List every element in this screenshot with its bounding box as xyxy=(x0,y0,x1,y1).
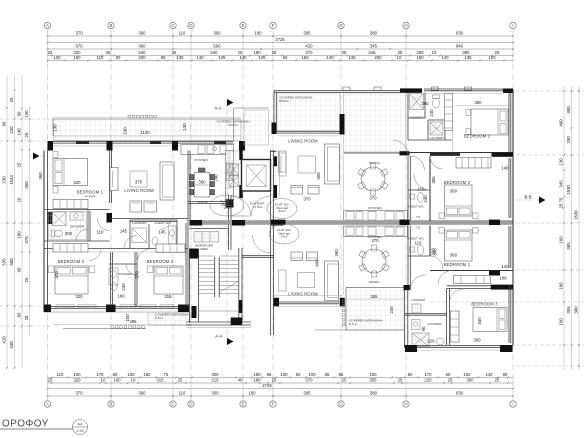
upper wardrobe column xyxy=(445,94,453,131)
lower bedroom1 south wall xyxy=(430,270,513,272)
svg-text:380: 380 xyxy=(574,306,579,314)
svg-text:F: F xyxy=(272,402,275,407)
svg-text:220: 220 xyxy=(424,378,432,383)
svg-text:420: 420 xyxy=(2,336,7,344)
hall column B xyxy=(107,213,113,223)
east facade wall xyxy=(512,89,514,346)
svg-text:135: 135 xyxy=(258,55,266,60)
svg-text:25: 25 xyxy=(272,50,277,55)
bedroom 1 bed xyxy=(53,159,88,186)
upper bedroom 1 bed xyxy=(471,109,508,135)
svg-text:65: 65 xyxy=(17,312,22,317)
upper bedroom 2 bed xyxy=(445,185,473,216)
svg-text:1530: 1530 xyxy=(574,210,579,220)
bedroom3 east wall xyxy=(185,223,187,306)
svg-text:130: 130 xyxy=(182,123,187,131)
living room top window xyxy=(277,130,340,132)
svg-text:90: 90 xyxy=(408,372,413,377)
south columns xyxy=(44,305,51,313)
bedroom3 bottom wall xyxy=(417,345,500,347)
svg-text:370: 370 xyxy=(75,44,83,49)
svg-text:500: 500 xyxy=(9,258,14,266)
svg-text:25: 25 xyxy=(106,50,111,55)
svg-text:80: 80 xyxy=(116,55,121,60)
balcony dimension 1140 xyxy=(53,135,241,137)
svg-text:B: B xyxy=(109,402,112,407)
dining chairs xyxy=(190,175,194,180)
lower verandah xyxy=(346,288,404,331)
svg-text:25: 25 xyxy=(17,162,22,167)
bedroom 2 door arc xyxy=(89,249,101,261)
upper dining table xyxy=(361,167,385,191)
svg-text:400: 400 xyxy=(559,119,564,127)
balcony bottom verandah xyxy=(53,324,190,326)
ensuite shower tray xyxy=(52,212,66,226)
svg-text:A-A: A-A xyxy=(215,334,222,339)
column A1 xyxy=(48,141,54,151)
svg-text:160: 160 xyxy=(143,372,151,377)
svg-text:100: 100 xyxy=(488,55,496,60)
upper living coffee table xyxy=(298,156,316,173)
svg-text:BEDROOM 1: BEDROOM 1 xyxy=(464,134,491,139)
svg-text:400: 400 xyxy=(566,106,571,114)
svg-text:150: 150 xyxy=(416,55,424,60)
svg-text:630: 630 xyxy=(456,391,464,396)
lower living armchairs xyxy=(291,252,303,261)
dining east wall xyxy=(187,151,189,224)
svg-text:150: 150 xyxy=(463,372,471,377)
title underline xyxy=(0,428,73,430)
left apartment south wall windows xyxy=(51,306,186,308)
upper verandah parapet top xyxy=(274,90,408,92)
column B1 xyxy=(107,141,113,151)
lower verandah wall col xyxy=(404,285,410,290)
svg-text:350: 350 xyxy=(466,378,474,383)
lower living coffee table xyxy=(298,273,315,288)
north wall stubs xyxy=(76,141,89,144)
svg-text:GUEST WC: GUEST WC xyxy=(407,205,424,209)
svg-text:345: 345 xyxy=(559,180,564,188)
south window sills xyxy=(56,305,74,308)
svg-text:145: 145 xyxy=(120,229,128,234)
svg-text:85: 85 xyxy=(339,372,344,377)
svg-text:300: 300 xyxy=(211,372,219,377)
svg-text:140: 140 xyxy=(326,55,334,60)
svg-text:B-B: B-B xyxy=(524,195,531,200)
scale bubble A4 1:50 xyxy=(73,420,88,435)
svg-text:110: 110 xyxy=(415,241,422,246)
guest wc toilet xyxy=(152,237,158,245)
upper bedroom 1 dim 380 xyxy=(455,105,509,107)
svg-text:KITCHEN: KITCHEN xyxy=(194,158,208,162)
svg-text:DINING: DINING xyxy=(369,280,380,284)
svg-text:80: 80 xyxy=(161,55,166,60)
svg-text:I: I xyxy=(512,23,513,28)
svg-text:395: 395 xyxy=(303,31,311,36)
svg-text:LIVING ROOM: LIVING ROOM xyxy=(288,292,318,297)
party wall band left xyxy=(190,220,284,225)
svg-text:180: 180 xyxy=(254,31,262,36)
ensuite floor hatch xyxy=(49,212,87,240)
svg-text:2725: 2725 xyxy=(262,383,272,388)
upper verandah hatch outer xyxy=(277,93,340,131)
right vertical dimension lines xyxy=(559,86,580,370)
svg-text:180: 180 xyxy=(17,231,22,239)
svg-text:100: 100 xyxy=(125,314,130,322)
lower kitchen counter xyxy=(344,226,408,237)
kitchen tall cabinet xyxy=(226,151,234,200)
svg-text:25: 25 xyxy=(342,378,347,383)
svg-text:60: 60 xyxy=(283,55,288,60)
bedroom1/living wall xyxy=(109,151,111,204)
bedroom 2 bed xyxy=(55,266,88,294)
upper bedroom 2 wardrobe xyxy=(456,158,491,168)
svg-text:135: 135 xyxy=(176,55,184,60)
svg-text:SHOWER: SHOWER xyxy=(70,225,85,229)
svg-text:90: 90 xyxy=(2,121,7,126)
upper corridor door arcs xyxy=(410,156,424,170)
bedroom1 south wall xyxy=(408,152,513,154)
bottom dimension lines xyxy=(46,372,514,400)
upper kitchen counter xyxy=(344,211,408,222)
svg-text:140: 140 xyxy=(485,372,493,377)
wardrobe cabinet xyxy=(194,232,219,243)
svg-text:180: 180 xyxy=(559,282,564,290)
hall column xyxy=(226,200,234,208)
svg-text:345: 345 xyxy=(370,44,378,49)
shower toilet xyxy=(111,283,117,291)
section marker B-B left xyxy=(30,155,44,157)
svg-text:A: A xyxy=(46,402,49,407)
svg-text:1530: 1530 xyxy=(566,185,571,195)
column grid bubbles bottom xyxy=(44,401,516,407)
flat 203 label xyxy=(269,224,299,244)
svg-text:I: I xyxy=(512,402,513,407)
svg-text:60: 60 xyxy=(113,372,118,377)
left apartment boundary wall upper right xyxy=(271,151,277,153)
svg-text:360: 360 xyxy=(24,181,29,189)
svg-text:25 75: 25 75 xyxy=(559,197,564,208)
svg-text:370: 370 xyxy=(54,271,59,279)
bedroom 3 wardrobe xyxy=(156,244,185,253)
svg-text:130: 130 xyxy=(559,158,564,166)
wardrobe corridor wall xyxy=(44,251,188,253)
upper living armchairs xyxy=(291,186,303,195)
laundry lower walls xyxy=(404,287,406,348)
svg-text:25: 25 xyxy=(342,50,347,55)
column grid bubbles top xyxy=(44,22,516,28)
svg-text:85: 85 xyxy=(267,372,272,377)
living room sofa xyxy=(160,162,174,200)
svg-text:F: F xyxy=(272,23,275,28)
stair landing edge xyxy=(199,310,239,312)
svg-text:430: 430 xyxy=(9,341,14,349)
svg-text:160: 160 xyxy=(559,236,564,244)
stair bottom wall xyxy=(186,321,251,323)
stair stringer xyxy=(214,257,216,298)
svg-text:50: 50 xyxy=(296,372,301,377)
ensuite walls xyxy=(44,209,110,211)
svg-text:A4: A4 xyxy=(78,422,84,427)
svg-text:220: 220 xyxy=(427,339,435,344)
svg-text:100: 100 xyxy=(499,276,507,281)
svg-text:360: 360 xyxy=(138,44,146,49)
svg-text:SHOWER: SHOWER xyxy=(410,115,425,119)
wc toilet upper xyxy=(433,98,440,108)
svg-text:A: A xyxy=(46,23,49,28)
svg-text:BEDROOM 2: BEDROOM 2 xyxy=(58,259,85,264)
svg-text:380: 380 xyxy=(370,31,378,36)
parapet pilaster caps xyxy=(343,87,350,90)
shower block walls xyxy=(407,93,409,141)
svg-text:200: 200 xyxy=(421,101,429,106)
living room tv unit xyxy=(110,168,118,191)
flat 202 label xyxy=(267,199,297,219)
verandah south edge wall xyxy=(344,152,409,154)
svg-text:BEDROOM 3: BEDROOM 3 xyxy=(147,259,174,264)
shower door arc xyxy=(126,264,137,275)
svg-text:140: 140 xyxy=(441,55,449,60)
left wall column xyxy=(48,212,53,224)
kitchen-hall wall xyxy=(188,201,234,203)
svg-text:G: G xyxy=(339,23,343,28)
svg-text:355: 355 xyxy=(566,306,571,314)
svg-text:355: 355 xyxy=(369,378,377,383)
svg-text:130: 130 xyxy=(53,124,58,132)
svg-text:LAUNDRY: LAUNDRY xyxy=(411,298,426,302)
living room coffee table xyxy=(130,171,147,187)
svg-text:10: 10 xyxy=(397,55,402,60)
svg-text:200: 200 xyxy=(374,55,382,60)
svg-text:365: 365 xyxy=(431,176,436,184)
left vertical dimension lines xyxy=(2,75,31,369)
svg-text:1:50: 1:50 xyxy=(76,429,83,433)
lower bedroom 1 bed xyxy=(445,230,473,261)
svg-text:240: 240 xyxy=(214,174,219,182)
ensuite toilet xyxy=(52,230,55,237)
kitchen west wall lower xyxy=(343,237,345,295)
verandah left column xyxy=(272,123,277,135)
svg-text:ΟΡΟΦΟΥ: ΟΡΟΦΟΥ xyxy=(2,419,49,430)
svg-text:175: 175 xyxy=(96,372,104,377)
lower living sofa xyxy=(325,261,339,301)
upper verandah hatch inner xyxy=(344,93,407,152)
svg-text:420: 420 xyxy=(305,44,313,49)
meter closet boxes xyxy=(229,164,239,175)
stair treads xyxy=(199,255,215,257)
svg-text:25: 25 xyxy=(24,132,29,137)
svg-text:240: 240 xyxy=(121,283,126,291)
svg-text:380: 380 xyxy=(370,391,378,396)
svg-text:630: 630 xyxy=(456,31,464,36)
svg-text:160: 160 xyxy=(117,294,125,299)
svg-text:590: 590 xyxy=(213,44,221,49)
svg-text:240: 240 xyxy=(429,109,434,117)
right wall lower windows xyxy=(508,226,510,268)
corridor door arcs xyxy=(231,196,251,216)
svg-text:340: 340 xyxy=(210,50,218,55)
column C1 xyxy=(172,141,178,151)
svg-text:300: 300 xyxy=(211,391,219,396)
svg-text:KITCHEN: KITCHEN xyxy=(368,206,382,210)
shower lower toilet xyxy=(436,338,444,344)
svg-text:10: 10 xyxy=(432,50,437,55)
lower dining table xyxy=(362,249,386,273)
svg-text:150: 150 xyxy=(301,55,309,60)
svg-text:A-A: A-A xyxy=(214,106,221,111)
svg-text:370: 370 xyxy=(303,197,311,202)
svg-text:25: 25 xyxy=(24,277,29,282)
svg-text:140: 140 xyxy=(501,166,509,171)
svg-text:180: 180 xyxy=(253,378,261,383)
lower living south window xyxy=(277,301,340,303)
section line A-A vertical xyxy=(226,100,228,345)
svg-text:25: 25 xyxy=(9,97,14,102)
svg-text:170: 170 xyxy=(424,372,432,377)
svg-text:315: 315 xyxy=(156,378,164,383)
corridor walls xyxy=(228,195,230,250)
svg-text:90: 90 xyxy=(421,326,426,331)
svg-text:10: 10 xyxy=(131,378,136,383)
svg-text:215: 215 xyxy=(211,378,219,383)
svg-text:E: E xyxy=(241,23,244,28)
living wall column xyxy=(340,114,345,135)
svg-text:145: 145 xyxy=(158,230,166,235)
lower bedroom 3 bed xyxy=(473,308,507,332)
svg-text:82m²: 82m² xyxy=(278,209,285,213)
svg-text:140: 140 xyxy=(239,55,247,60)
kitchen counter xyxy=(181,145,234,155)
svg-text:640: 640 xyxy=(456,44,464,49)
svg-text:25: 25 xyxy=(398,378,403,383)
verandah top column xyxy=(400,88,422,92)
lower boundary wall xyxy=(274,295,344,297)
svg-text:60: 60 xyxy=(17,267,22,272)
svg-text:375: 375 xyxy=(135,180,143,185)
svg-text:345: 345 xyxy=(477,317,482,325)
party wall right band xyxy=(271,220,514,225)
right wall bedroom2 windows xyxy=(508,158,510,218)
svg-text:240: 240 xyxy=(423,195,428,203)
svg-text:110: 110 xyxy=(97,55,104,60)
svg-text:160: 160 xyxy=(113,378,121,383)
svg-text:360: 360 xyxy=(450,189,458,194)
svg-text:AREA: AREA xyxy=(200,247,209,251)
svg-text:90: 90 xyxy=(503,372,508,377)
elevator door pocket xyxy=(279,153,286,176)
svg-text:1043: 1043 xyxy=(9,175,14,185)
balcony floor hatch xyxy=(54,120,242,141)
shower lower tray xyxy=(412,333,429,347)
svg-text:370: 370 xyxy=(24,236,29,244)
svg-text:85: 85 xyxy=(325,372,330,377)
svg-text:G: G xyxy=(339,402,343,407)
svg-text:100: 100 xyxy=(53,55,61,60)
wardrobe area wall xyxy=(190,228,229,230)
svg-text:230: 230 xyxy=(2,176,7,184)
svg-text:65.0m²: 65.0m² xyxy=(279,99,289,103)
stairwell walls xyxy=(198,249,200,323)
svg-text:140: 140 xyxy=(196,55,204,60)
svg-text:360: 360 xyxy=(198,180,206,185)
svg-text:360: 360 xyxy=(450,253,458,258)
svg-text:345: 345 xyxy=(433,248,438,256)
elevator shaft wall blacks xyxy=(239,145,242,160)
svg-text:LIVING ROOM: LIVING ROOM xyxy=(124,188,154,193)
svg-text:7.8: 7.8 xyxy=(416,215,421,219)
svg-text:100: 100 xyxy=(127,372,135,377)
bedroom1 west wall xyxy=(452,93,454,153)
corridor south wall xyxy=(242,255,274,257)
svg-text:H: H xyxy=(404,402,407,407)
svg-text:E: E xyxy=(241,402,244,407)
upper living tv unit xyxy=(279,151,287,172)
column D1 xyxy=(239,141,245,151)
left apt east verandah xyxy=(233,108,235,141)
dining table left apt xyxy=(195,173,210,198)
entrance hatch strip above elevator xyxy=(229,151,241,164)
svg-text:LIVING ROOM: LIVING ROOM xyxy=(288,139,318,144)
svg-text:130: 130 xyxy=(24,110,29,118)
bedroom3 north wall column xyxy=(491,285,513,290)
svg-text:150: 150 xyxy=(566,136,571,144)
svg-text:150: 150 xyxy=(559,318,564,326)
svg-text:20: 20 xyxy=(24,315,29,320)
svg-text:535: 535 xyxy=(2,258,7,266)
bedroom3 door arc xyxy=(450,289,464,303)
bedroom 3 door arc xyxy=(137,249,152,264)
hall door arcs xyxy=(98,219,110,231)
svg-text:395: 395 xyxy=(303,391,311,396)
left exterior wall xyxy=(43,151,45,313)
svg-text:75m²: 75m² xyxy=(280,235,287,239)
svg-text:LAUNDRY: LAUNDRY xyxy=(430,136,445,140)
svg-text:100: 100 xyxy=(308,372,316,377)
svg-text:360: 360 xyxy=(138,31,146,36)
svg-text:230: 230 xyxy=(123,127,128,135)
svg-text:10: 10 xyxy=(101,378,106,383)
svg-text:490: 490 xyxy=(316,172,321,180)
bedroom3 north wall xyxy=(447,285,514,287)
svg-text:360: 360 xyxy=(334,249,339,257)
svg-text:H: H xyxy=(404,23,407,28)
elevator shaft xyxy=(242,160,271,192)
svg-text:BEDROOM 2: BEDROOM 2 xyxy=(444,180,471,185)
left apartment balcony top edge xyxy=(53,117,241,119)
svg-text:7.8: 7.8 xyxy=(416,226,421,230)
svg-text:25: 25 xyxy=(48,50,53,55)
svg-text:110: 110 xyxy=(179,31,186,36)
svg-text:200: 200 xyxy=(65,231,73,236)
svg-text:140: 140 xyxy=(501,264,509,269)
svg-text:245: 245 xyxy=(389,306,394,314)
laundry and guest wc cells xyxy=(130,219,177,221)
horizontal axis extension dashes xyxy=(0,91,584,366)
right wall upper windows xyxy=(508,93,510,153)
svg-text:1140: 1140 xyxy=(140,130,150,135)
svg-text:180: 180 xyxy=(248,391,256,396)
svg-text:135: 135 xyxy=(348,55,356,60)
upper living sofa xyxy=(325,144,340,184)
svg-text:100: 100 xyxy=(280,372,288,377)
svg-text:370: 370 xyxy=(135,271,140,279)
svg-text:370: 370 xyxy=(371,238,379,243)
svg-text:8.7m²: 8.7m² xyxy=(349,322,357,326)
svg-text:370: 370 xyxy=(76,31,84,36)
svg-text:490: 490 xyxy=(315,259,320,267)
elevator car with X xyxy=(247,165,266,187)
svg-text:200: 200 xyxy=(138,55,146,60)
